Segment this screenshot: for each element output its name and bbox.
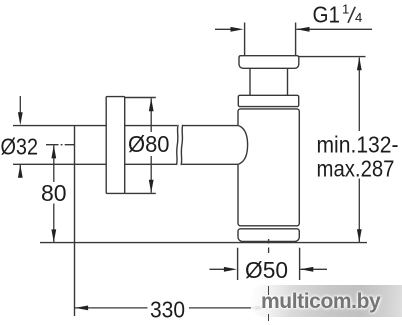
svg-text:4: 4 [355, 10, 362, 25]
neck between flange and nut [250, 68, 288, 95]
Ø32 dimension arrow lines [19, 96, 21, 177]
Ø50 dimension lines [209, 268, 327, 270]
arrowhead 330 right [255, 306, 268, 311]
svg-text:Ø50: Ø50 [245, 257, 288, 283]
arrowhead Ø32 bottom [18, 165, 23, 178]
svg-text:330: 330 [150, 296, 185, 322]
arrowhead Ø50 left [224, 267, 237, 272]
Ø50 extension lines [238, 248, 300, 280]
arrowhead 80 bottom [51, 229, 56, 242]
pipe centerline dash-dot [46, 144, 75, 146]
svg-text:G1: G1 [313, 2, 341, 28]
wall escutcheon Ø80 [106, 97, 125, 194]
bottom cap [238, 229, 299, 242]
arrowhead Ø32 top [18, 112, 23, 125]
pipe break lines [177, 125, 179, 165]
inlet bulge inside body [239, 126, 248, 165]
fraction slash of G1 1/4 [348, 7, 355, 23]
watermark background [250, 285, 402, 317]
arrowhead min-max bottom [357, 229, 362, 242]
G1 dimension arrow lines [215, 28, 372, 30]
arrowhead 80 top [51, 145, 56, 158]
arrowhead G1 right [296, 27, 309, 32]
svg-text:1: 1 [342, 1, 349, 16]
horizontal inlet pipe bottom edge [13, 163, 239, 165]
arrowhead G1 left [231, 27, 244, 32]
baseline reference line [40, 242, 367, 244]
80 dimension line and centerline tick [53, 145, 55, 242]
svg-text:Ø32: Ø32 [1, 134, 39, 160]
svg-text:max.287: max.287 [317, 156, 395, 182]
Ø80 extension lines [125, 98, 156, 194]
wall vertical line [74, 126, 76, 316]
arrowhead Ø50 right [300, 267, 313, 272]
arrowhead Ø80 top [149, 98, 154, 111]
body centerline dash-dot [268, 239, 270, 253]
body centerline dashes over watermark [268, 286, 269, 295]
330 dimension line [75, 307, 269, 309]
arrowhead 330 left [75, 306, 88, 311]
watermark multicom.by [261, 290, 402, 314]
svg-text:Ø80: Ø80 [128, 131, 170, 157]
extension line top right [299, 56, 366, 58]
inlet tailpiece pipe G1 1/4 [245, 23, 296, 56]
arrowhead min-max top [357, 57, 362, 70]
Ø80 dimension arrow lines [150, 98, 152, 193]
svg-text:min.132-: min.132- [317, 132, 399, 158]
top flange of trap connector [239, 56, 299, 69]
arrowhead Ø80 bottom [149, 180, 154, 193]
trap body (left edge open at pipe inlet) [238, 109, 299, 226]
upper nut [238, 95, 298, 106]
min-max vertical dimension line [358, 58, 360, 243]
horizontal inlet pipe top edge [13, 125, 239, 127]
svg-text:80: 80 [41, 180, 67, 206]
